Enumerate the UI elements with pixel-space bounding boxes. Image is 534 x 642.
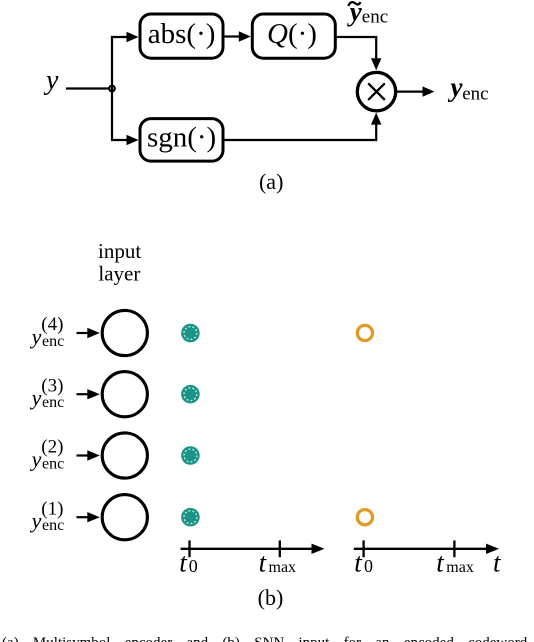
- wire multiplier output with arrow: [396, 86, 434, 96]
- svg-text:y: y: [448, 72, 464, 102]
- svg-text:max: max: [446, 559, 474, 576]
- svg-text:sgn(·): sgn(·): [147, 122, 216, 154]
- svg-text:y: y: [43, 65, 59, 96]
- neuron 2: [102, 433, 147, 478]
- svg-text:enc: enc: [42, 455, 64, 472]
- node y enc (3) label: [30, 375, 65, 411]
- wire y to junction: [66, 87, 112, 89]
- svg-text:y: y: [30, 324, 42, 349]
- axis left label tmax: [259, 547, 296, 577]
- svg-text:y: y: [347, 0, 363, 27]
- svg-text:max: max: [269, 559, 297, 576]
- svg-text:0: 0: [364, 556, 373, 576]
- node y enc (4) label: [30, 314, 65, 350]
- axis right: [354, 540, 499, 557]
- wire abs to Q with arrow: [225, 31, 251, 41]
- node y enc (1) label: [30, 498, 65, 534]
- wire Q to multiplier with arrow: [337, 37, 382, 70]
- svg-text:Q(·): Q(·): [267, 18, 317, 50]
- svg-text:y: y: [30, 385, 42, 410]
- neuron 1: [102, 495, 147, 540]
- caption (cropped at page bottom): [2, 635, 531, 642]
- block Q: [252, 14, 335, 58]
- spike marker orange row 1: [357, 510, 372, 525]
- svg-text:t: t: [493, 547, 502, 577]
- svg-text:t: t: [259, 547, 268, 577]
- axis left label t0: [179, 547, 198, 577]
- block sgn: [140, 119, 223, 162]
- spike marker teal row 3: [181, 385, 200, 404]
- label (a): [259, 169, 283, 194]
- node y enc (output label): [448, 72, 489, 104]
- axis right label t0: [354, 547, 373, 577]
- node y (input label): [43, 65, 59, 96]
- junction node: [108, 85, 116, 93]
- svg-text:y: y: [30, 446, 42, 471]
- svg-text:t: t: [436, 547, 445, 577]
- svg-text:layer: layer: [98, 262, 140, 286]
- svg-text:y: y: [30, 508, 42, 533]
- spike marker teal row 4: [181, 324, 200, 343]
- wire arrow into neuron 1: [77, 512, 100, 522]
- svg-text:0: 0: [189, 556, 198, 576]
- wire arrow into neuron 3: [77, 389, 100, 399]
- wire sgn to multiplier with arrow: [225, 113, 382, 140]
- block abs: [140, 14, 223, 58]
- wire junction to abs with arrow: [111, 32, 139, 42]
- spike marker teal row 2: [181, 446, 200, 465]
- wire junction to sgn with arrow: [111, 135, 139, 145]
- wire arrow into neuron 4: [77, 328, 100, 338]
- axis left: [181, 540, 325, 557]
- svg-text:enc: enc: [462, 83, 488, 104]
- multiplier: [357, 72, 395, 110]
- svg-text:abs(·): abs(·): [148, 18, 216, 50]
- svg-text:t: t: [354, 547, 363, 577]
- neuron 4: [102, 310, 147, 355]
- wire arrow into neuron 2: [77, 450, 100, 460]
- spike marker orange row 4: [357, 325, 372, 340]
- svg-text:(a): (a): [259, 169, 283, 194]
- svg-text:(b): (b): [258, 585, 284, 610]
- node y~enc label: [347, 0, 388, 28]
- svg-text:enc: enc: [362, 7, 388, 28]
- svg-text:enc: enc: [42, 333, 64, 350]
- svg-text:t: t: [179, 547, 188, 577]
- axis right label tmax: [436, 547, 474, 577]
- wire junction vertical branch: [111, 36, 113, 140]
- svg-text:enc: enc: [42, 517, 64, 534]
- label input layer: [98, 239, 141, 286]
- spike marker teal row 1: [181, 508, 200, 527]
- node y enc (2) label: [30, 437, 65, 473]
- neuron 3: [102, 372, 147, 417]
- axis right label t: [493, 547, 502, 577]
- label (b): [258, 585, 284, 610]
- svg-text:input: input: [98, 239, 141, 263]
- svg-text:enc: enc: [42, 394, 64, 411]
